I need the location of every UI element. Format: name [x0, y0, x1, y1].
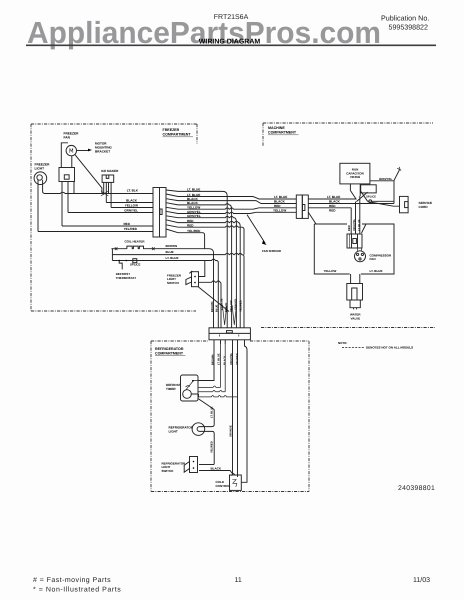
- wire switch top: [199, 464, 214, 466]
- machine compartment border: [261, 123, 435, 328]
- wire black to timer: [199, 344, 226, 392]
- svg-text:COIL HEATER: COIL HEATER: [125, 240, 146, 244]
- svg-text:RED: RED: [329, 204, 336, 208]
- freezer light switch label: [167, 274, 182, 285]
- wire RED turning down: [178, 221, 240, 327]
- svg-text:LT. BLUE: LT. BLUE: [166, 256, 179, 260]
- svg-text:GRN/YEL: GRN/YEL: [124, 209, 138, 213]
- wire lt.blue to capacitor: [308, 191, 356, 200]
- run capacitor label: [346, 168, 364, 180]
- freezer compartment border: [31, 124, 197, 311]
- freezer light lamp: [34, 172, 47, 185]
- wire YELLOW to machine: [178, 208, 296, 209]
- svg-text:YEL/RED: YEL/RED: [239, 300, 242, 312]
- wire brown to timer: [199, 344, 215, 381]
- overload relay: [347, 234, 362, 248]
- relay box under capacitor: [361, 185, 377, 193]
- wire GRN/YEL run: [68, 181, 153, 213]
- svg-text:VIKING: VIKING: [350, 175, 361, 179]
- wire lt.blue to timer: [199, 344, 221, 387]
- heater circuit labels: [166, 244, 179, 260]
- svg-text:FAN: FAN: [64, 136, 71, 140]
- wire fan to ice maker diagonal: [75, 155, 102, 194]
- compressor motor: [355, 251, 366, 262]
- svg-text:240398801: 240398801: [398, 485, 435, 492]
- svg-text:FAN: FAN: [370, 257, 376, 261]
- svg-text:5995398822: 5995398822: [389, 24, 429, 32]
- wire switch to bundle: [199, 281, 222, 328]
- wire YEL/RED turning down to heater run: [178, 233, 205, 249]
- svg-text:BROWN: BROWN: [211, 301, 214, 312]
- refrigerator light lamp: [192, 423, 205, 436]
- wire top LT.BLUE turning down: [178, 191, 227, 327]
- svg-text:ICE MAKER: ICE MAKER: [101, 169, 119, 173]
- wire labels right of connector: [187, 188, 201, 233]
- svg-text:BLUE: BLUE: [216, 304, 219, 312]
- svg-text:FAN SHROUD: FAN SHROUD: [262, 249, 281, 253]
- cold control label: [216, 480, 231, 488]
- defrost heater element: [112, 246, 154, 249]
- ground terminal arrow: [397, 167, 401, 171]
- rotated wire labels to overload: [348, 219, 361, 231]
- run capacitor box: [340, 163, 370, 184]
- svg-text:GRN/YEL: GRN/YEL: [235, 298, 238, 310]
- svg-text:DENOTES NOT ON ALL MODELS: DENOTES NOT ON ALL MODELS: [366, 346, 413, 350]
- svg-text:LT. BLUE: LT. BLUE: [274, 195, 287, 199]
- watermark underline: [26, 44, 436, 46]
- wire YEL/RED run: [38, 180, 153, 232]
- refrigerator light switch label: [162, 461, 187, 473]
- svg-text:* = Non-Illustrated Parts: * = Non-Illustrated Parts: [33, 586, 121, 594]
- wire LT.BLUE run to bundle: [117, 259, 218, 328]
- svg-text:CORD: CORD: [419, 205, 429, 209]
- svg-text:LT. BLUE: LT. BLUE: [211, 406, 214, 418]
- svg-text:RED: RED: [123, 222, 130, 226]
- wire BLACK to machine: [178, 201, 296, 204]
- wire to service cord lower: [368, 201, 400, 206]
- wire red to compressor loop: [308, 212, 316, 224]
- connector plug J1: [153, 188, 166, 238]
- svg-text:BLACK: BLACK: [126, 199, 138, 203]
- wire timer to light: [198, 399, 214, 425]
- capacitor leads: [350, 184, 360, 196]
- defrost thermostat label: [116, 272, 137, 280]
- note dashed sample: [342, 346, 364, 348]
- svg-text:TIMER: TIMER: [166, 387, 176, 391]
- svg-text:REFRIGERATOR: REFRIGERATOR: [155, 347, 184, 351]
- svg-text:ORANGE: ORANGE: [230, 425, 233, 437]
- svg-text:BLUE: BLUE: [166, 250, 174, 254]
- svg-text:LIGHT: LIGHT: [35, 167, 45, 171]
- wire BLACK 2 turning down: [178, 204, 232, 328]
- wire red to overload: [308, 208, 351, 234]
- svg-text:LT. BLUE: LT. BLUE: [220, 298, 223, 310]
- svg-text:COMPARTMENT: COMPARTMENT: [163, 133, 192, 137]
- fan shroud annotation arrow: [247, 215, 265, 243]
- wire labels left of connector: [123, 188, 138, 231]
- svg-text:YEL/RED: YEL/RED: [210, 441, 213, 453]
- ice maker: [102, 175, 114, 182]
- machine wire labels right: [327, 195, 341, 212]
- service cord plug: [400, 196, 409, 212]
- svg-text:11: 11: [235, 577, 242, 584]
- defrost timer box: [181, 375, 199, 401]
- cold control thermostat: [230, 475, 242, 490]
- svg-text:11/03: 11/03: [413, 576, 430, 584]
- svg-text:ORG/YEL: ORG/YEL: [353, 219, 356, 231]
- machine wire labels left: [273, 195, 287, 212]
- svg-text:THERMOSTAT: THERMOSTAT: [116, 276, 137, 280]
- refrigerator compartment border: [151, 341, 309, 492]
- svg-text:COMPARTMENT: COMPARTMENT: [155, 351, 184, 355]
- wire switch diagonal to bundle: [199, 287, 230, 312]
- svg-text:LT. BLUE: LT. BLUE: [217, 353, 220, 365]
- svg-text:YELLOW: YELLOW: [324, 269, 337, 273]
- defrost thermostat symbol: [119, 261, 122, 270]
- wire fan-out right of connector: [166, 190, 178, 233]
- wire BLACK run: [106, 202, 153, 204]
- svg-text:RED: RED: [348, 225, 351, 231]
- freezer fan motor M1: [66, 145, 76, 155]
- svg-text:FREEZER: FREEZER: [163, 128, 180, 132]
- harness arrowheads: [222, 305, 236, 325]
- connector pins: [214, 340, 245, 344]
- freezer fan label: [64, 132, 80, 140]
- splice dot: [369, 200, 372, 203]
- svg-text:NOTE:: NOTE:: [338, 341, 347, 345]
- motor mounting bracket arrow: [77, 150, 88, 152]
- wire org/yel to cold control: [232, 344, 234, 475]
- wire right pin to cold control: [241, 344, 247, 482]
- timer contact: [186, 381, 199, 391]
- compressor label: [370, 253, 393, 261]
- wire switch top to lt.blue: [199, 261, 205, 277]
- defrost timer label: [166, 383, 181, 391]
- harness connector block: [209, 328, 250, 340]
- wire BLUE run to bundle: [115, 253, 244, 328]
- wire grn/yel to ground: [370, 170, 400, 181]
- loop wire labels: [324, 269, 383, 273]
- freezer light label: [35, 162, 51, 170]
- svg-text:LT. BLUE: LT. BLUE: [370, 269, 383, 273]
- wire BROWN run to bundle: [153, 249, 213, 328]
- refrigerator light label: [169, 426, 194, 434]
- wire yel/red pin down: [237, 344, 239, 477]
- svg-text:CONTROL: CONTROL: [216, 484, 231, 488]
- black wire to cold control: [199, 471, 234, 476]
- svg-text:LIGHT: LIGHT: [169, 430, 178, 434]
- svg-text:RED: RED: [274, 204, 281, 208]
- wire YELLOW run: [111, 207, 153, 209]
- svg-text:YELLOW: YELLOW: [230, 300, 233, 312]
- timer motor: [183, 390, 192, 399]
- svg-text:YELLOW: YELLOW: [273, 209, 286, 213]
- svg-text:BLACK: BLACK: [225, 303, 228, 312]
- water valve solenoid: [347, 284, 363, 301]
- svg-text:Publication No.: Publication No.: [381, 14, 429, 23]
- wire timer lower to bundle: [199, 396, 238, 397]
- water valve label: [350, 313, 361, 321]
- motor mounting bracket label: [95, 142, 112, 154]
- service cord label: [419, 201, 433, 209]
- wire capacitor right lead down: [360, 181, 394, 234]
- wire GRN/YEL to machine: [178, 212, 296, 213]
- svg-text:LT. BLUE: LT. BLUE: [358, 219, 361, 231]
- machine connector plug pair: [296, 195, 302, 218]
- rotated wire labels below connector: [211, 353, 239, 365]
- svg-text:VALVE: VALVE: [351, 316, 361, 320]
- wire overload to compressor: [358, 248, 362, 252]
- svg-text:BRACKET: BRACKET: [95, 150, 110, 154]
- fan motor housing box: [59, 168, 75, 182]
- wire RED 2 turning down: [178, 226, 244, 255]
- svg-text:COMPARTMENT: COMPARTMENT: [268, 131, 297, 135]
- rotated harness labels: [211, 298, 243, 312]
- svg-text:MACHINE: MACHINE: [268, 126, 285, 130]
- splice square on wire: [133, 259, 137, 263]
- splice crossing wires: [356, 191, 368, 235]
- svg-text:LT. BLK: LT. BLK: [127, 188, 139, 192]
- svg-text:BROWN: BROWN: [166, 244, 178, 248]
- freezer light switch: [192, 272, 199, 287]
- wire LT.BLUE to machine: [178, 197, 296, 200]
- svg-text:SWITCH: SWITCH: [167, 281, 179, 285]
- svg-text:SPLICE: SPLICE: [366, 195, 376, 199]
- refrigerator light switch: [190, 457, 198, 473]
- wire heater left drop: [112, 249, 118, 261]
- wire RED run: [62, 181, 153, 226]
- svg-text:YEL/RED: YEL/RED: [124, 227, 138, 231]
- wire LT.BLK run: [43, 180, 153, 194]
- water valve drops: [351, 274, 360, 284]
- compressor loop wires: [314, 224, 394, 274]
- wire fan motor leads: [61, 143, 72, 168]
- wire light to switch: [205, 424, 215, 464]
- svg-text:YELLOW: YELLOW: [125, 204, 138, 208]
- svg-text:# = Fast-moving Parts: # = Fast-moving Parts: [33, 576, 111, 584]
- wire black to service cord: [308, 203, 394, 205]
- svg-text:RED: RED: [329, 209, 336, 213]
- svg-text:WIRING DIAGRAM: WIRING DIAGRAM: [199, 38, 261, 45]
- svg-text:SWITCH: SWITCH: [162, 469, 174, 473]
- svg-text:SPLICE: SPLICE: [130, 263, 141, 267]
- wire GRN/YEL 2 turning down: [178, 216, 236, 327]
- svg-text:BLACK: BLACK: [211, 466, 222, 470]
- timer lead bottom: [191, 394, 198, 397]
